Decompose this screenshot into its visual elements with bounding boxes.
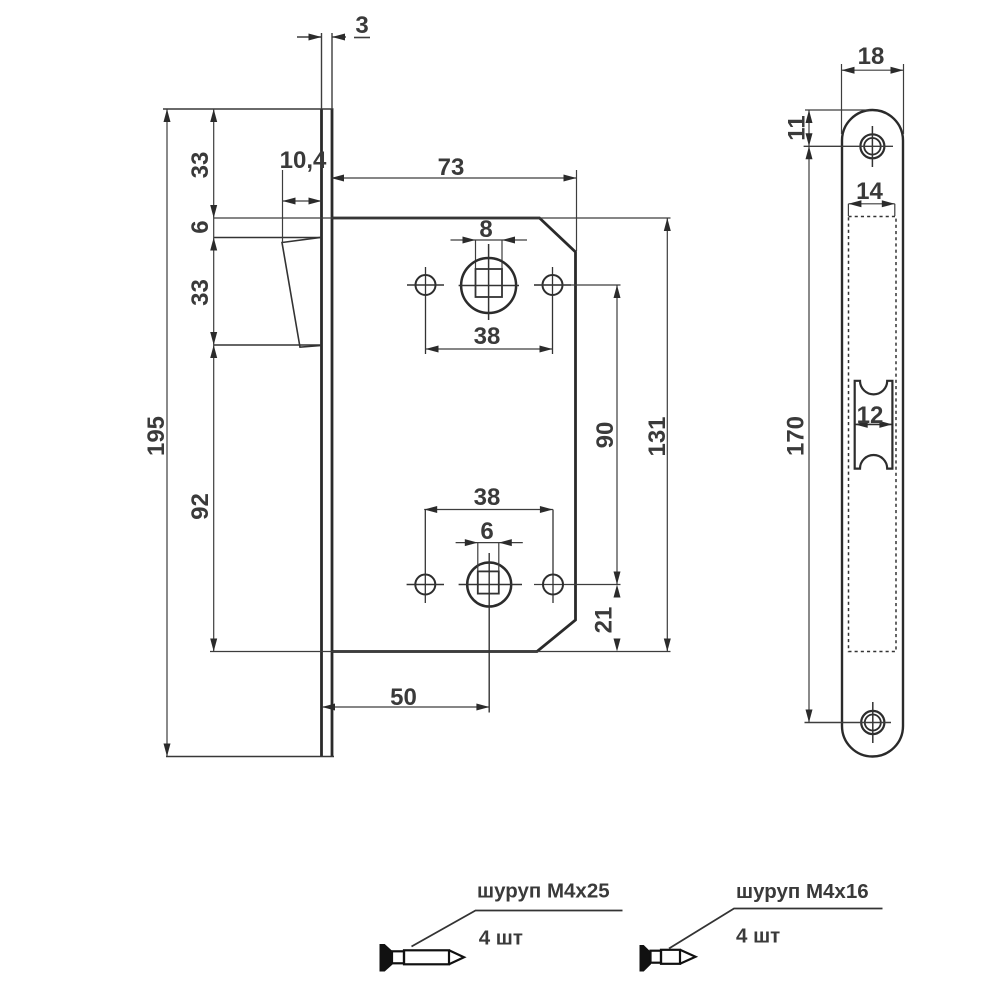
screw M4x16 shank: [661, 950, 680, 964]
svg-text:4 шт: 4 шт: [479, 927, 523, 950]
dimension 90 extension lines: [534, 284, 621, 286]
dimension 50 dim line: [322, 706, 489, 708]
svg-text:4 шт: 4 шт: [736, 925, 780, 948]
faceplate side view right edge: [331, 109, 334, 757]
dimension 6 bottom dim line with outside arrows: [456, 542, 523, 544]
svg-text:3: 3: [355, 12, 368, 39]
svg-text:14: 14: [856, 178, 883, 205]
dimension 90 dim line: [616, 285, 618, 585]
lock body outline: [333, 218, 576, 652]
screw M4x16 neck: [651, 951, 662, 963]
top hub square hole 8x8: [476, 269, 503, 297]
dimension 73 right extension line: [576, 170, 578, 251]
screw M4x25 head: [380, 945, 392, 972]
dimension 21 dim line: [614, 585, 621, 598]
svg-text:6: 6: [480, 518, 493, 545]
body top edge extension line (left to dims, right to 131 dim): [214, 217, 671, 219]
top hub crosshair: [459, 285, 519, 287]
dimension 12 dim line: [855, 423, 893, 425]
svg-text:38: 38: [474, 484, 501, 511]
plate top edge with extension to 195 dim: [163, 108, 334, 110]
screw M4x16 head: [640, 946, 651, 972]
bottom screw hole right: [543, 575, 563, 595]
dimension 11 extension line top: [805, 109, 870, 111]
dimension 8 dim line with outside arrows: [451, 239, 528, 241]
svg-text:8: 8: [479, 216, 492, 243]
dimension 14 dim line: [848, 203, 894, 205]
bottom hub circle: [467, 563, 511, 607]
dimension 170 dim line: [808, 146, 810, 722]
svg-text:90: 90: [592, 422, 619, 449]
left dimension column line (33/6/33/92): [213, 109, 215, 652]
bottom hub crosshair vertical down to 50 dim: [488, 553, 490, 713]
bottom screw hole inner: [865, 715, 881, 731]
svg-text:18: 18: [858, 43, 885, 70]
dimension 18 dim line: [842, 69, 904, 71]
svg-text:38: 38: [474, 323, 501, 350]
dimension 6 extension lines: [477, 543, 479, 572]
svg-text:170: 170: [783, 416, 810, 456]
svg-text:21: 21: [591, 607, 618, 634]
svg-text:33: 33: [187, 279, 214, 306]
svg-text:33: 33: [187, 152, 214, 179]
top screw hole crosshair: [871, 126, 873, 167]
svg-text:шуруп M4x25: шуруп M4x25: [477, 880, 610, 903]
svg-text:195: 195: [143, 416, 170, 456]
bottom screw hole left: [415, 575, 435, 595]
svg-text:92: 92: [187, 493, 214, 520]
svg-text:12: 12: [857, 402, 884, 429]
top screw hole outer: [860, 134, 884, 158]
top hub circle: [461, 258, 516, 313]
dashed cutout rectangle 14 wide: [849, 217, 897, 652]
plate bottom edge with extension to 195 dim: [166, 756, 334, 758]
screw M4x25 tip: [449, 950, 464, 964]
svg-text:10,4: 10,4: [280, 147, 327, 174]
dimension 14 extension stubs: [847, 204, 849, 216]
latch bolt side profile: [282, 237, 322, 347]
svg-text:73: 73: [438, 154, 465, 181]
dimension 18 extension lines: [841, 64, 843, 134]
dimension 10,4 dim line: [283, 200, 322, 202]
svg-text:6: 6: [187, 220, 214, 233]
dimension 195 dim line: [166, 109, 168, 757]
dimension 38 bottom dim line: [424, 509, 553, 511]
dimension 11 dim line: [808, 110, 810, 146]
dimension 8 extension lines: [475, 240, 477, 269]
dimension 73 dim line: [331, 177, 577, 179]
body bottom edge extension line: [210, 651, 671, 653]
dimension 131 dim line: [666, 218, 668, 652]
svg-text:50: 50: [390, 684, 417, 711]
bottom screw hole outer: [861, 711, 884, 734]
dimension 10,4 extension line: [282, 170, 284, 243]
svg-text:11: 11: [784, 115, 811, 140]
faceplate side view left edge: [320, 109, 323, 757]
latch bottom line: [214, 344, 322, 346]
dimension 38 top dim line: [426, 348, 553, 350]
svg-text:131: 131: [644, 416, 671, 456]
top screw hole left: [416, 275, 436, 295]
dimension 3 dim line and arrows: [297, 36, 322, 38]
screw M4x16 tip: [680, 950, 696, 964]
faceplate front view outline: [842, 110, 903, 757]
top screw hole inner: [864, 138, 881, 155]
screw M4x25 leader line: [412, 911, 623, 947]
screw M4x25 neck: [392, 951, 404, 963]
dimension 3 (plate thickness) extension lines: [321, 33, 323, 109]
latch top line (6 below body top): [214, 237, 322, 239]
bottom screw hole crosshair: [872, 702, 874, 743]
bottom hub square hole 6x6: [478, 571, 499, 593]
dimension 170 bottom extension line: [805, 722, 892, 724]
top screw hole right: [543, 275, 563, 295]
latch bolt front view with break notches: [855, 381, 893, 469]
screw M4x25 shank: [404, 950, 449, 964]
screw M4x16 leader line: [669, 909, 883, 949]
svg-text:шуруп M4x16: шуруп M4x16: [736, 880, 869, 903]
